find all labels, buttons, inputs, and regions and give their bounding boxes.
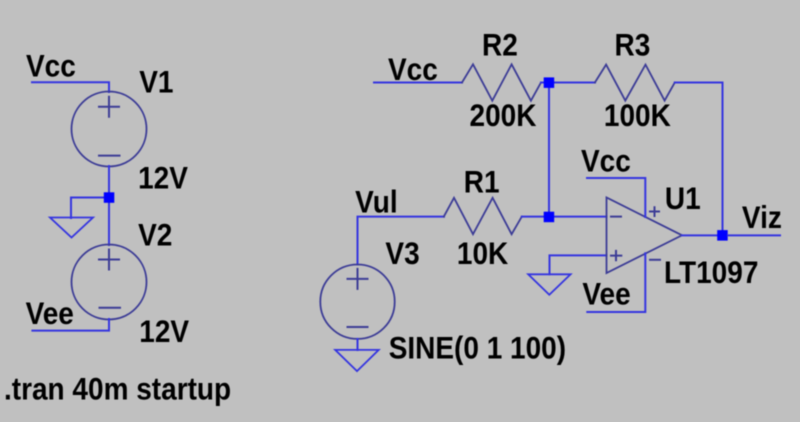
ground (V3) <box>335 350 379 371</box>
svg-text:Vcc: Vcc <box>581 144 631 179</box>
op-amp inverting input marker <box>611 216 621 218</box>
wire V1 bottom to V2 top <box>108 166 110 245</box>
svg-text:100K: 100K <box>604 99 671 134</box>
svg-text:LT1097: LT1097 <box>664 256 758 291</box>
op-amp non-inverting input marker <box>611 251 621 260</box>
svg-text:200K: 200K <box>470 99 537 134</box>
svg-text:Vcc: Vcc <box>26 49 76 84</box>
resistor R3 <box>595 65 675 101</box>
wire op-amp output to node <box>682 234 723 236</box>
wire Vcc to V1 top <box>32 82 109 92</box>
svg-text:R2: R2 <box>482 28 518 63</box>
wire Vul to R1 <box>358 217 445 265</box>
wire node to op-amp inverting input <box>549 216 607 218</box>
node junction R2/R3 <box>544 77 555 88</box>
svg-text:U1: U1 <box>665 181 701 216</box>
wire R3 to output node <box>675 83 723 236</box>
wire node to R3 <box>541 82 595 84</box>
wire Vcc to op-amp V+ pin <box>587 178 645 217</box>
svg-text:12V: 12V <box>139 315 189 350</box>
voltage source V1 <box>72 92 147 167</box>
svg-text:V1: V1 <box>139 65 173 100</box>
svg-text:V3: V3 <box>385 237 419 272</box>
svg-text:.tran 40m startup: .tran 40m startup <box>4 372 231 407</box>
svg-text:10K: 10K <box>457 237 509 272</box>
node junction V1/V2 <box>104 192 115 203</box>
svg-text:12V: 12V <box>138 161 188 196</box>
svg-text:V2: V2 <box>138 218 172 253</box>
wire feedback node down <box>548 83 550 218</box>
voltage source V2 <box>72 245 147 320</box>
ground (left) <box>50 218 93 238</box>
op-amp V+ supply marker <box>650 207 659 216</box>
node junction output <box>717 230 728 241</box>
wire Vee to op-amp V- pin <box>587 253 645 312</box>
voltage source V3 <box>320 265 394 339</box>
resistor R2 <box>462 64 541 100</box>
svg-text:Viz: Viz <box>742 201 782 236</box>
wire V2 bottom to Vee <box>32 319 109 331</box>
resistor R1 <box>444 198 522 234</box>
wire output to Viz <box>728 234 780 236</box>
svg-text:R1: R1 <box>464 165 500 200</box>
wire ground to op-amp non-inverting input <box>550 255 607 274</box>
wire V3 bottom to ground <box>357 339 359 350</box>
op-amp U1 triangle <box>607 198 683 274</box>
svg-text:R3: R3 <box>615 28 651 63</box>
wire node to ground <box>71 198 109 219</box>
svg-text:SINE(0 1 100): SINE(0 1 100) <box>389 331 566 366</box>
svg-text:Vee: Vee <box>582 277 630 312</box>
op-amp V- supply marker <box>650 259 660 261</box>
svg-text:Vee: Vee <box>26 297 74 332</box>
svg-text:Vul: Vul <box>355 185 398 220</box>
wire R1 to inverting node <box>522 216 549 218</box>
wire Vcc to R2 <box>374 82 462 84</box>
node junction R1/R2 <box>544 212 555 223</box>
ground (op-amp +) <box>528 274 570 295</box>
